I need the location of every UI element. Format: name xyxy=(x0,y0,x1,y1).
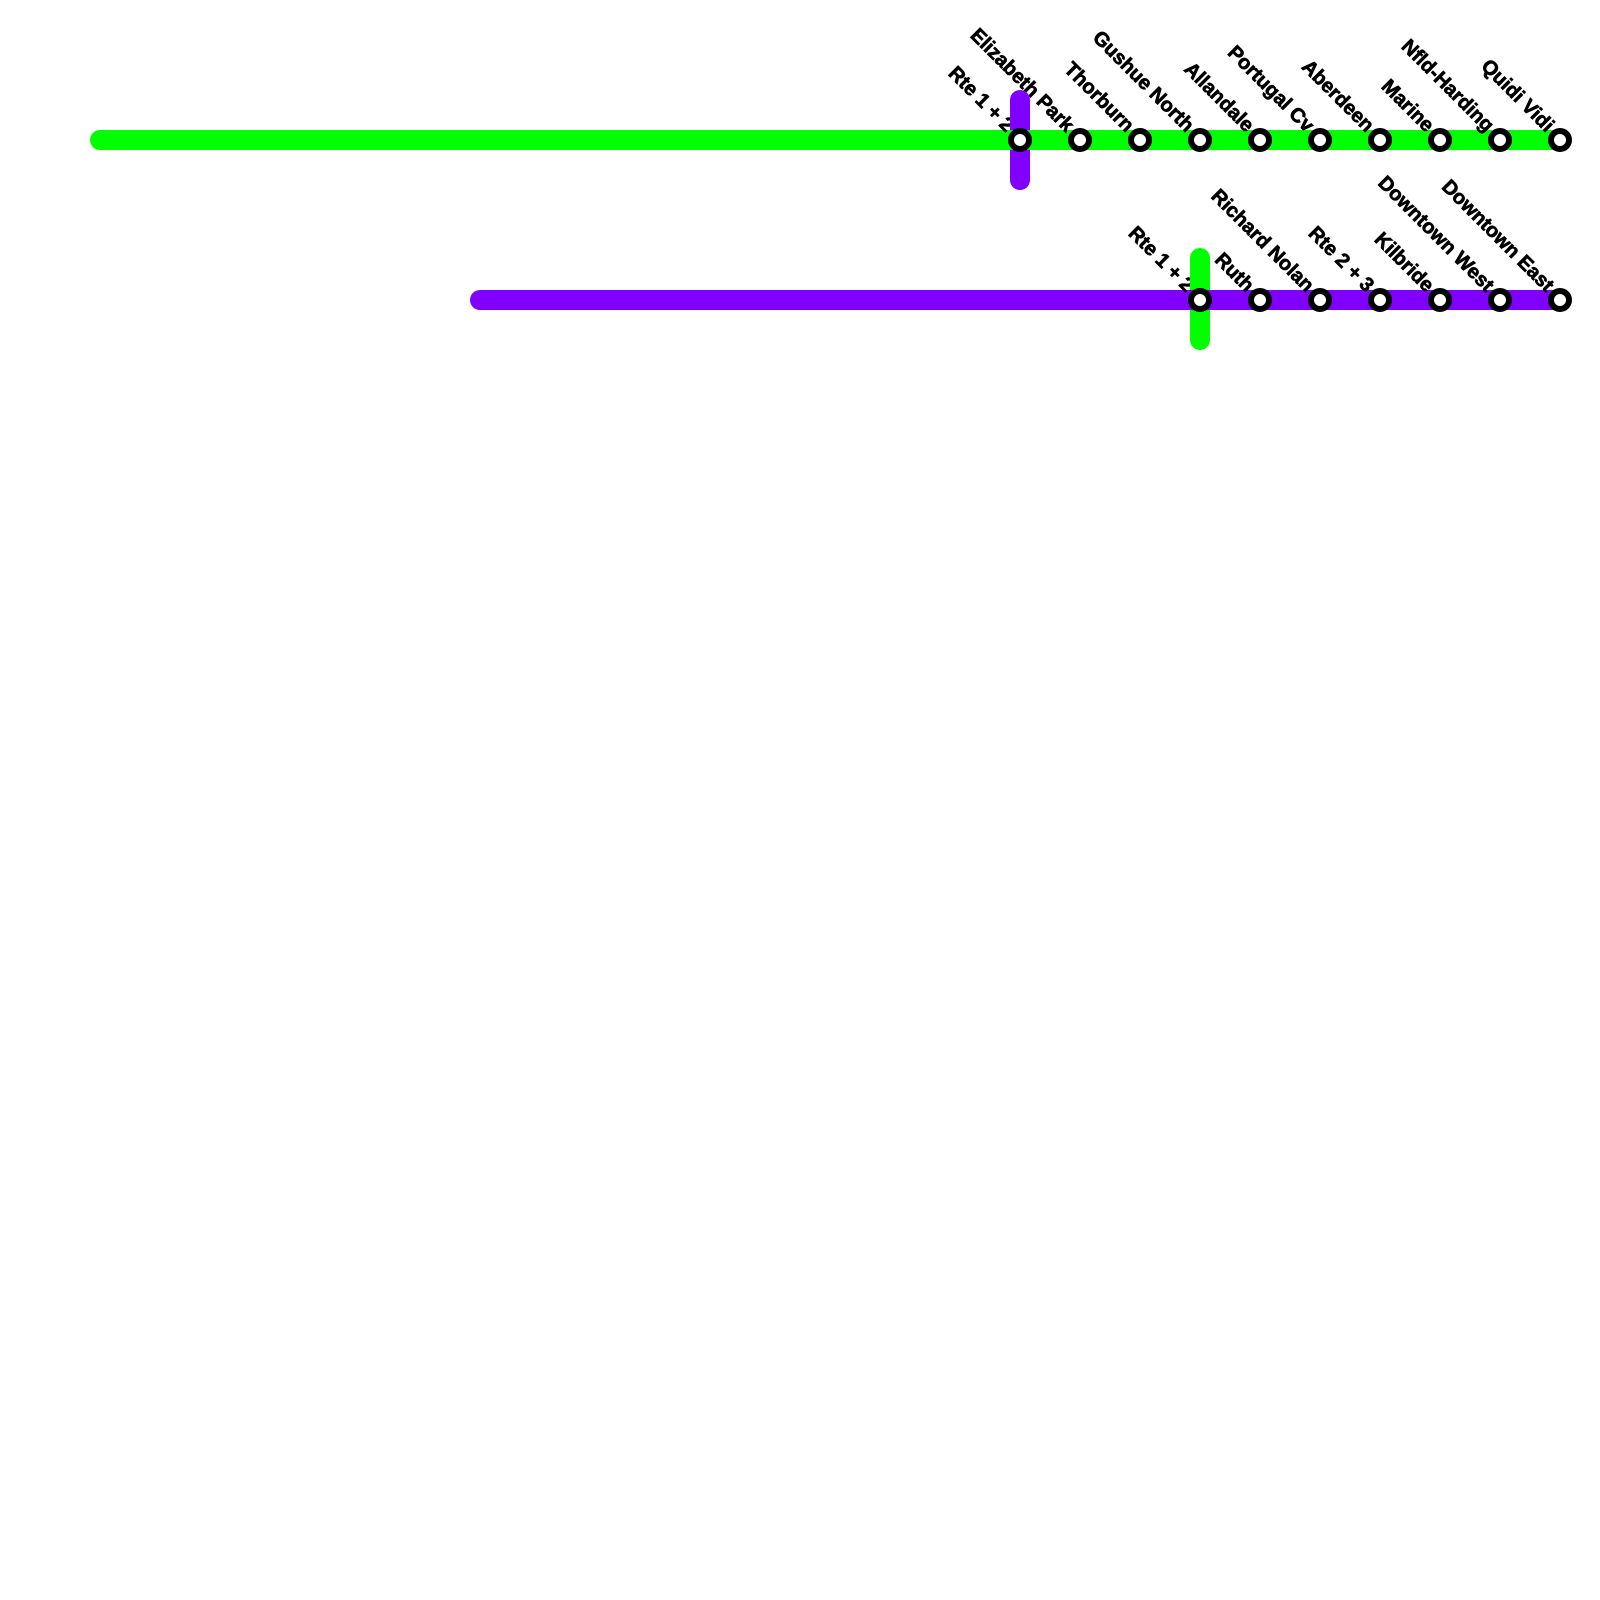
route 2 interchange tick lower stub (purple) xyxy=(1010,150,1030,180)
station Rte 2 + 3 xyxy=(1371,291,1389,309)
route 1 interchange tick lower cap xyxy=(1190,330,1210,350)
station Portugal Cv xyxy=(1311,131,1329,149)
route 1 interchange tick upper cap xyxy=(1190,248,1210,268)
station Marine xyxy=(1431,131,1449,149)
route 2 interchange tick lower cap xyxy=(1010,170,1030,190)
station Quidi Vidi xyxy=(1551,131,1569,149)
route 2 line (purple) xyxy=(480,290,1560,310)
station Richard Nolan xyxy=(1311,291,1329,309)
station Aberdeen xyxy=(1371,131,1389,149)
station Gushue North xyxy=(1191,131,1209,149)
route 1 interchange tick upper stub (green) xyxy=(1190,258,1210,290)
route 2 interchange tick upper stub (purple) xyxy=(1010,100,1030,130)
route 1 interchange tick lower stub (green) xyxy=(1190,310,1210,340)
station Kilbride xyxy=(1431,291,1449,309)
station Rte 1 + 2 (route 2) xyxy=(1191,291,1209,309)
station Ruth xyxy=(1251,291,1269,309)
station Rte 1 + 2 (route 1) xyxy=(1011,131,1029,149)
station Thorburn xyxy=(1131,131,1149,149)
station Elizabeth Park xyxy=(1071,131,1089,149)
station Nfld-Harding xyxy=(1491,131,1509,149)
station Allandale xyxy=(1251,131,1269,149)
station Downtown East xyxy=(1551,291,1569,309)
station Downtown West xyxy=(1491,291,1509,309)
route 2 interchange tick upper cap xyxy=(1010,90,1030,110)
route 1 line (green) xyxy=(100,130,1560,150)
